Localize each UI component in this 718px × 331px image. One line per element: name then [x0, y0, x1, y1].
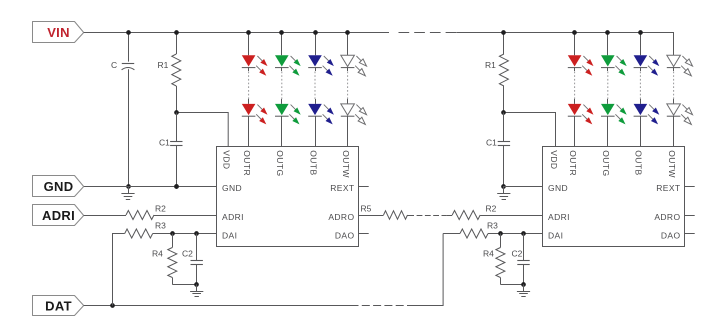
wire VIN rail to LED column red (module 2) [574, 32, 576, 55]
svg-text:ADRO: ADRO [328, 212, 354, 222]
wire LED link dotted red (module 2) [574, 67, 576, 71]
node C1/GND junction (module 1) [174, 184, 179, 189]
node C1/GND junction (module 2) [501, 184, 506, 189]
resistor R5 [359, 215, 384, 217]
svg-text:OUTB: OUTB [634, 150, 644, 175]
ground (below C2, module 2) [517, 284, 530, 296]
pin stub REXT (module 2) [685, 186, 695, 188]
wire VIN rail (solid right section) [457, 32, 674, 34]
svg-text:R3: R3 [155, 220, 166, 230]
capacitor C2 (module 1) [196, 234, 198, 261]
node R1/C1/VDD junction (module 1) [174, 110, 179, 115]
IC U2 LED driver [543, 147, 685, 247]
node rail/LED junction green (module 1) [279, 30, 284, 35]
svg-text:R4: R4 [152, 249, 163, 259]
wire R1 to VDD pin (module 1) [176, 113, 228, 147]
svg-text:R1: R1 [485, 60, 496, 70]
pin stub REXT (module 1) [359, 186, 369, 188]
net tag GND [33, 176, 84, 197]
wire LED to OUT pin blue (module 2) [640, 116, 642, 146]
resistor R1 (module 2) [503, 32, 505, 54]
svg-text:OUTW: OUTW [667, 150, 677, 178]
wire LED to OUT pin white (module 2) [673, 116, 675, 146]
svg-text:REXT: REXT [656, 183, 680, 193]
svg-text:GND: GND [548, 183, 568, 193]
wire LED to OUT pin red (module 2) [574, 116, 576, 146]
LED D7 blue bottom (module 2) [634, 104, 648, 115]
LED D8 white bottom (module 2) [667, 104, 681, 115]
net tag VIN [33, 22, 84, 43]
wire LED to OUT pin blue (module 1) [315, 116, 317, 146]
node rail/LED junction white (module 1) [345, 30, 350, 35]
capacitor C1 (module 1) [176, 113, 178, 142]
resistor R3 (module 1) [112, 233, 125, 235]
svg-text:OUTR: OUTR [242, 150, 252, 176]
pin stub DAO (module 1) [359, 233, 369, 235]
node R3/R4 junction (module 1) [170, 231, 175, 236]
svg-text:DAO: DAO [335, 230, 355, 240]
svg-text:R2: R2 [486, 204, 497, 214]
node R1/C1/VDD junction (module 2) [501, 110, 506, 115]
LED D2 green top (module 2) [601, 55, 615, 66]
node R4/C2 ground junction (module 1) [194, 282, 199, 287]
net tag DAT [33, 296, 84, 316]
node R3/C2 junction (module 1) [194, 231, 199, 236]
wire LED to OUT pin green (module 2) [607, 116, 609, 146]
wire VIN rail to LED column green (module 2) [607, 32, 609, 55]
svg-text:C1: C1 [159, 138, 170, 148]
node rail/LED junction blue (module 1) [313, 30, 318, 35]
node DAT junction [110, 303, 115, 308]
IC U1 LED driver [217, 147, 359, 247]
wire DAT feed module 1 [112, 234, 114, 306]
svg-text:GND: GND [222, 183, 242, 193]
svg-text:DAO: DAO [661, 230, 681, 240]
LED D1 red top (module 2) [568, 55, 582, 66]
ground (under C) [121, 186, 134, 200]
wire GND pin to ground (module 2) [504, 186, 543, 188]
node VIN/C junction [126, 30, 131, 35]
wire VIN rail to LED column green (module 1) [281, 32, 283, 55]
LED D6 green bottom (module 1) [275, 104, 289, 115]
wire LED to OUT pin red (module 1) [248, 116, 250, 146]
svg-text:R2: R2 [155, 204, 166, 214]
ground (below C2, module 1) [190, 284, 203, 296]
svg-text:OUTG: OUTG [275, 150, 285, 176]
LED D1 red top (module 1) [242, 55, 256, 66]
resistor R4 (module 2) [500, 234, 502, 248]
pin stub ADRO (module 2) [685, 215, 695, 217]
wire LED link dotted red (module 1) [248, 67, 250, 71]
svg-text:ADRI: ADRI [548, 212, 570, 222]
svg-text:VDD: VDD [222, 150, 232, 169]
svg-text:C2: C2 [182, 249, 193, 259]
svg-text:ADRI: ADRI [222, 212, 244, 222]
wire DAT rail (dashed continuation) [351, 305, 413, 307]
svg-text:ADRO: ADRO [654, 212, 680, 222]
wire LED to OUT pin white (module 1) [347, 116, 349, 146]
wire DAT rail to module 2 feed [412, 234, 443, 306]
svg-text:C2: C2 [512, 249, 523, 259]
wire VIN rail to LED column white (module 2) [673, 32, 675, 55]
svg-text:R4: R4 [483, 249, 494, 259]
capacitor C [128, 32, 130, 62]
LED D3 blue top (module 2) [634, 55, 648, 66]
wire LED link dotted white (module 1) [347, 67, 349, 71]
LED D3 blue top (module 1) [308, 55, 322, 66]
svg-text:GND: GND [44, 179, 74, 194]
svg-text:C: C [111, 60, 117, 70]
wire ADRO cascade (dashed) [417, 215, 447, 217]
node VIN/R1 junction (module 2) [501, 30, 506, 35]
wire LED to OUT pin green (module 1) [281, 116, 283, 146]
wire LED link dotted green (module 1) [281, 67, 283, 71]
wire VIN rail to LED column blue (module 2) [640, 32, 642, 55]
wire LED link dotted blue (module 1) [315, 67, 317, 71]
wire LED link dotted green (module 2) [607, 67, 609, 71]
resistor R4 (module 1) [172, 234, 174, 248]
svg-text:OUTR: OUTR [568, 150, 578, 176]
LED D5 red bottom (module 1) [242, 104, 256, 115]
ground (module 2) [497, 186, 510, 200]
svg-text:DAT: DAT [45, 298, 72, 313]
wire GND net [84, 186, 217, 188]
pin stub DAO (module 2) [685, 233, 695, 235]
LED D4 white top (module 2) [667, 55, 681, 66]
wire VIN rail (dashed continuation) [399, 32, 457, 34]
node R3/C2 junction (module 2) [521, 231, 526, 236]
wire VIN rail to LED column blue (module 1) [315, 32, 317, 55]
wire LED link dotted white (module 2) [673, 67, 675, 71]
node C/GND junction [126, 184, 131, 189]
svg-text:OUTW: OUTW [341, 150, 351, 178]
LED D7 blue bottom (module 1) [308, 104, 322, 115]
net tag ADRI [33, 205, 84, 226]
svg-text:VDD: VDD [549, 150, 559, 169]
svg-text:DAI: DAI [548, 230, 563, 240]
LED D5 red bottom (module 2) [568, 104, 582, 115]
svg-text:ADRI: ADRI [42, 208, 75, 223]
svg-text:VIN: VIN [47, 25, 70, 40]
svg-text:C1: C1 [486, 138, 497, 148]
wire VIN rail to LED column white (module 1) [347, 32, 349, 55]
node rail/LED junction green (module 2) [605, 30, 610, 35]
wire DAT rail (solid) [84, 305, 351, 307]
wire LED link dotted blue (module 2) [640, 67, 642, 71]
svg-text:R3: R3 [487, 220, 498, 230]
capacitor C1 (module 2) [503, 113, 505, 142]
svg-text:R1: R1 [158, 60, 169, 70]
node rail/LED junction blue (module 2) [638, 30, 643, 35]
wire R1 to VDD pin (module 2) [504, 113, 556, 147]
node R3/R4 junction (module 2) [498, 231, 503, 236]
resistor R2 (module 2) [446, 215, 452, 217]
resistor R3 (module 2) [443, 233, 460, 235]
wire VIN rail (solid left section) [84, 32, 389, 34]
svg-text:OUTG: OUTG [601, 150, 611, 176]
svg-text:OUTB: OUTB [308, 150, 318, 175]
node rail/LED junction red (module 1) [246, 30, 251, 35]
svg-text:DAI: DAI [222, 230, 237, 240]
svg-text:REXT: REXT [330, 183, 354, 193]
node R4/C2 ground junction (module 2) [521, 282, 526, 287]
resistor R2 (module 1) [84, 215, 126, 217]
resistor R1 (module 1) [176, 32, 178, 54]
LED D4 white top (module 1) [341, 55, 355, 66]
node rail/LED junction red (module 2) [572, 30, 577, 35]
node VIN/R1 junction (module 1) [174, 30, 179, 35]
wire VIN rail to LED column red (module 1) [248, 32, 250, 55]
svg-text:R5: R5 [361, 204, 372, 214]
LED D2 green top (module 1) [275, 55, 289, 66]
LED D6 green bottom (module 2) [601, 104, 615, 115]
capacitor C2 (module 2) [523, 234, 525, 261]
LED D8 white bottom (module 1) [341, 104, 355, 115]
